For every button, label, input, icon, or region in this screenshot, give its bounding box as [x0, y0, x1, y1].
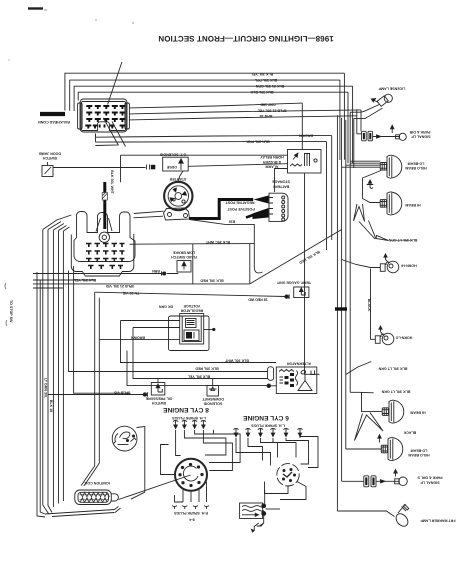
svg-text:BLK 18: BLK 18	[49, 400, 53, 412]
svg-text:B16: B16	[229, 220, 236, 224]
svg-text:BLK 30L WHT: BLK 30L WHT	[224, 359, 248, 363]
svg-text:ODSE: ODSE	[166, 165, 177, 169]
svg-text:ALARM: ALARM	[266, 164, 279, 168]
svg-text:OIL PRESSURE: OIL PRESSURE	[145, 397, 172, 401]
low brake fluid switch S2	[177, 261, 191, 273]
splice blob on verticals	[335, 307, 347, 310]
alternator BAT stub	[313, 373, 320, 375]
svg-text:BLK 30L RED: BLK 30L RED	[200, 279, 224, 283]
label HI-LO BEAM lower	[408, 449, 429, 458]
svg-text:BLK 30L LT GRN: BLK 30L LT GRN	[381, 390, 410, 394]
wires ignition connector to starter bracket	[134, 211, 164, 218]
wire labels mid	[159, 305, 249, 379]
wire to brake switch with inline connector	[74, 273, 179, 275]
svg-text:BRN 18: BRN 18	[260, 114, 273, 118]
svg-text:BULKHEAD CONN: BULKHEAD CONN	[38, 120, 70, 124]
alternator connector	[268, 367, 274, 381]
spark plugs 8cyl top row	[173, 421, 206, 429]
horn LO	[375, 326, 394, 345]
svg-text:L.H. SPARK PLUGS: L.H. SPARK PLUGS	[172, 416, 206, 420]
svg-text:HI BEAM: HI BEAM	[410, 410, 425, 414]
svg-text:1968—LIGHTING CIRCUIT—FRONT SE: 1968—LIGHTING CIRCUIT—FRONT SECTION	[158, 34, 334, 43]
distributor lower wires to RH plugs	[183, 482, 207, 502]
svg-text:DOWNSHIFT: DOWNSHIFT	[201, 397, 224, 401]
svg-text:BLACK: BLACK	[403, 431, 416, 435]
carburetor TVS circle	[112, 426, 137, 451]
wire loop left of connector 2	[70, 80, 340, 111]
downshift solenoid L1	[207, 379, 219, 397]
svg-text:BLACK: BLACK	[367, 299, 371, 312]
svg-text:ALTERNATOR: ALTERNATOR	[287, 361, 312, 365]
headlamp U3 hi beam lower	[382, 400, 404, 423]
svg-text:BLK 30L BLK: BLK 30L BLK	[250, 90, 273, 94]
svg-text:LO-BEAM: LO-BEAM	[408, 161, 425, 165]
left harness bundle wire 2	[48, 230, 52, 513]
temp gauge feed wire	[95, 292, 286, 296]
diagonal BLK 30L RED riser	[250, 230, 342, 284]
svg-text:GRY 18D: GRY 18D	[260, 103, 276, 107]
diagonal pin wires	[108, 62, 122, 105]
plug wire maze 6cyl	[236, 438, 271, 466]
right harness vertical 5 (to horn relay)	[301, 103, 303, 150]
svg-text:LO-BEAM: LO-BEAM	[411, 449, 428, 453]
left stub horizontals	[33, 274, 96, 289]
svg-text:TEMP. GAUGE UNIT: TEMP. GAUGE UNIT	[276, 280, 311, 284]
wire solenoid to starter top	[178, 171, 183, 182]
front marker lamp	[394, 504, 411, 529]
wire lower pair b	[96, 140, 327, 143]
svg-text:STARTER: STARTER	[169, 177, 186, 181]
svg-text:NEGATIVE POST: NEGATIVE POST	[225, 200, 255, 204]
label DOWNSHIFT SOLENOID	[201, 397, 224, 406]
voltage regulator wire loop	[169, 316, 210, 351]
regulator loop wires	[69, 271, 268, 372]
svg-text:& BUZZER: & BUZZER	[263, 160, 282, 164]
label PARK DIR SIG LAMP	[409, 130, 430, 139]
wire top 4	[78, 92, 348, 100]
svg-text:SIGNAL LP: SIGNAL LP	[420, 480, 440, 484]
nested loop below connector	[95, 134, 97, 143]
headlamp U2 hi beam upper	[380, 192, 402, 215]
leader lines lower lamp labels	[346, 362, 372, 375]
svg-text:HI/LO BEAM: HI/LO BEAM	[408, 453, 429, 457]
svg-text:BROWN: BROWN	[299, 133, 313, 137]
svg-text:POSITIVE POST: POSITIVE POST	[227, 207, 255, 211]
svg-text:SOLENOID: SOLENOID	[203, 401, 222, 405]
svg-text:LOW BRAKE: LOW BRAKE	[172, 250, 195, 254]
svg-text:BLK 30L LT GRN: BLK 30L LT GRN	[378, 367, 407, 371]
bulkhead connector pins (4x5 grid)	[85, 106, 125, 129]
wire ignition feed to horn relay	[121, 155, 288, 182]
horn relay K2	[288, 150, 322, 174]
battery positive post chevron	[254, 196, 269, 204]
svg-text:8 CYL ENGINE: 8 CYL ENGINE	[163, 406, 209, 413]
long vertical pair to coil	[81, 292, 95, 485]
right harness vertical 2	[339, 80, 341, 160]
O.T. solenoid K1	[163, 157, 189, 171]
headlamp U4 hi-lo lower wire	[346, 448, 383, 450]
tail lamp connectors	[362, 131, 373, 141]
svg-text:SIGNAL LP: SIGNAL LP	[411, 135, 431, 139]
connector dot temp gauge	[285, 295, 288, 298]
wire loop left of connector 1	[65, 73, 345, 110]
svg-text:BLK 30L RED: BLK 30L RED	[298, 250, 320, 265]
storage battery BT1	[269, 193, 288, 221]
leader arrows headlamp group	[354, 204, 365, 222]
svg-text:SWITCH: SWITCH	[152, 401, 167, 405]
svg-text:6 CYL ENGINE: 6 CYL ENGINE	[243, 414, 289, 421]
svg-text:HI/LO BEAM: HI/LO BEAM	[405, 166, 426, 170]
wire upper lamp to lower lamp	[363, 171, 382, 203]
park lamp bulb B1	[399, 133, 406, 140]
svg-text:BRN: BRN	[152, 269, 160, 273]
spark plugs 8cyl bottom row	[172, 506, 209, 509]
parking lamp connectors	[364, 476, 376, 487]
svg-text:3PLB 21 30L YEL: 3PLB 21 30L YEL	[257, 109, 287, 113]
label LOW BRAKE FLUID SWITCH	[152, 250, 197, 272]
ignition switch connector C2 (steering column)	[71, 212, 135, 277]
headlamp U1 hi-lo beam upper	[380, 155, 402, 178]
wire lower pair a	[96, 135, 332, 137]
label HI-LO BEAM upper	[405, 161, 426, 170]
coil bottom loop wires	[45, 510, 115, 517]
labels under ignition connector	[73, 278, 139, 295]
svg-text:PARK & DIR. S: PARK & DIR. S	[417, 476, 443, 480]
horn feed diagonal	[342, 260, 381, 268]
connector dot oil pressure	[143, 393, 146, 396]
svg-text:O.T. SOLENOID: O.T. SOLENOID	[159, 152, 186, 156]
battery negative post chevron	[253, 208, 269, 219]
voltage regulator VR1	[180, 314, 204, 345]
svg-text:3PLB VID: 3PLB VID	[114, 391, 131, 395]
svg-text:LICENSE LAMP: LICENSE LAMP	[378, 86, 405, 90]
wire box around brake area	[130, 243, 255, 246]
ground arrow parking lamp	[395, 471, 397, 477]
alternator G1	[276, 367, 317, 394]
svg-text:DK GRN: DK GRN	[159, 305, 174, 309]
license lamp L1	[371, 94, 392, 106]
resistor box wires	[264, 490, 266, 504]
ignition coil T1	[75, 490, 119, 505]
wire group2 a	[130, 103, 303, 108]
plug wire maze 8cyl	[176, 430, 181, 456]
regulator right stub	[204, 329, 213, 331]
wire loop left of connector 3	[74, 86, 353, 111]
svg-text:8-4: 8-4	[189, 518, 194, 522]
svg-text:PARK & DIR: PARK & DIR	[409, 130, 430, 134]
inline connector	[147, 165, 156, 170]
bundle top bends into ignition connector	[43, 215, 72, 231]
label OIL PRESSURE SWITCH	[145, 397, 172, 406]
temp gauge unit box	[294, 287, 309, 298]
svg-text:SWITCH: SWITCH	[43, 156, 58, 160]
wire solenoid to horn relay	[188, 164, 287, 167]
parking lamp bulb	[376, 480, 400, 482]
svg-text:BLK 30L YEL: BLK 30L YEL	[187, 375, 210, 379]
svg-text:3PLB 21 30L VID: 3PLB 21 30L VID	[105, 284, 134, 288]
ground sym between lamps	[370, 182, 373, 189]
horn HI	[380, 254, 399, 273]
6cyl dist lower loop	[265, 482, 289, 494]
ignition connector pin grid (T pins)	[86, 244, 125, 270]
headlamp U4 hi-lo beam lower	[381, 438, 403, 461]
wire horn relay bottom feed	[304, 173, 306, 238]
label STORAGE BATTERY	[272, 180, 290, 189]
svg-text:VOLTAGE: VOLTAGE	[183, 304, 200, 308]
horn link vertical	[371, 269, 376, 340]
wire group2 c	[130, 116, 357, 120]
oil pressure switch S3	[151, 379, 165, 395]
svg-text:BLK 21 30L GRN: BLK 21 30L GRN	[255, 84, 284, 88]
bulkhead connector C1 (firewall, grid of pins)	[78, 99, 130, 132]
distributor 6cyl D2	[277, 464, 299, 486]
svg-text:IGNITION COIL: IGNITION COIL	[83, 481, 109, 485]
right harness vertical 4	[347, 92, 349, 163]
svg-text:BLK 30L RED: BLK 30L RED	[195, 367, 219, 371]
left harness bundle wire 3	[52, 230, 54, 507]
leader arrows lower lamps	[355, 413, 384, 441]
right harness vertical 1	[343, 73, 345, 160]
label DOOR JAMB SWITCH	[39, 152, 61, 161]
svg-text:BLK 30L PNK: BLK 30L PNK	[246, 140, 270, 144]
stray scan marks top left	[28, 7, 43, 9]
ground arrow at tail lamp	[391, 127, 393, 133]
starter bracket	[164, 208, 190, 220]
label PARK and DIR SIG	[417, 476, 443, 485]
door jamb switch S1	[42, 162, 53, 177]
wire door jamb to solenoid	[53, 167, 146, 169]
oil pressure switch wire	[48, 394, 144, 396]
labels NEGATIVE POSITIVE POST	[225, 200, 255, 211]
spark plugs 6cyl row	[233, 429, 302, 437]
right harness vertical 3	[352, 86, 354, 163]
wire horn relay to battery post	[275, 169, 288, 193]
starter lead wire B16	[190, 220, 263, 273]
thick battery cable starter to battery	[189, 200, 253, 219]
ignition feed thick bar	[103, 182, 106, 229]
resistor unit box	[240, 503, 266, 519]
svg-text:BLK 30L PPL: BLK 30L PPL	[254, 78, 277, 82]
svg-text:TO STOP SW: TO STOP SW	[9, 300, 13, 323]
svg-text:FRT MARKER LAMP: FRT MARKER LAMP	[420, 519, 456, 523]
svg-text:L.H. SPARK PLUGS: L.H. SPARK PLUGS	[251, 424, 285, 428]
svg-text:BLK 30L WHT: BLK 30L WHT	[110, 170, 114, 194]
svg-text:18 RED WD: 18 RED WD	[248, 298, 268, 302]
thick feed bar into bulkhead connector	[40, 112, 65, 116]
marker lamp wire	[337, 511, 394, 517]
starter motor M1	[164, 182, 192, 210]
svg-text:LT GRN 30L: LT GRN 30L	[44, 378, 48, 399]
headlamp U3 hi beam lower wire	[362, 392, 383, 411]
svg-text:HI BEAM: HI BEAM	[405, 203, 420, 207]
svg-text:BLK 30C WHT: BLK 30C WHT	[205, 240, 230, 244]
left harness bundle wire 4	[58, 231, 60, 504]
long horizontal to junction	[96, 283, 250, 285]
parking lamp wire	[342, 480, 364, 482]
left harness bundle wire 1	[43, 230, 49, 515]
wire group2 b	[130, 110, 362, 114]
distributor 8cyl D1	[175, 459, 207, 491]
svg-text:DOOR JAMB: DOOR JAMB	[39, 152, 61, 156]
alternator feed dots	[267, 384, 271, 388]
license lamp wires	[350, 104, 380, 112]
left harness bundle wire 5	[62, 231, 64, 501]
headlamp bundle wires	[342, 161, 381, 167]
tail lamp wire and bulb	[357, 134, 400, 137]
right harness vertical 7	[360, 110, 362, 131]
right verticals long runs	[326, 142, 328, 250]
label VOLTAGE REGULATOR	[180, 304, 203, 313]
right harness vertical 6 (tail lamp feed)	[356, 109, 358, 134]
svg-text:BLK 30L YEL: BLK 30L YEL	[250, 72, 273, 76]
coil to distributor diagonal	[119, 475, 191, 500]
wire labels on top runs	[246, 72, 313, 143]
carb circle riser	[137, 427, 145, 493]
brown wire to regulator	[99, 339, 179, 341]
ground arrow between lower lamps	[379, 437, 381, 443]
svg-text:HORN-LO: HORN-LO	[395, 336, 412, 340]
svg-text:HORN RELAY: HORN RELAY	[260, 155, 284, 159]
label HORN RELAY BUZZER ALARM	[260, 155, 284, 168]
far left verticals	[37, 272, 45, 517]
svg-text:REGULATOR: REGULATOR	[180, 308, 203, 312]
svg-text:R.H. SPARK PLUGS: R.H. SPARK PLUGS	[173, 511, 207, 515]
svg-text:HORN-HI: HORN-HI	[401, 264, 416, 268]
